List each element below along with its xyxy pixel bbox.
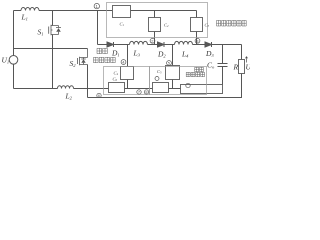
wire top rail inside unit1 [131, 10, 197, 12]
svg-text:D3: D3 [205, 49, 214, 58]
svg-text:S1: S1 [38, 28, 44, 37]
inductor L1 [21, 8, 39, 11]
label unit3 line2 电容单元 [186, 72, 204, 76]
inductor L3 [130, 41, 148, 44]
wire bottom rail [14, 88, 109, 90]
wire capacitor f vertical [172, 45, 174, 89]
voltage source U1 [9, 56, 18, 65]
capacitor c [191, 18, 203, 32]
svg-text:S2: S2 [70, 59, 77, 68]
wire left rail [13, 11, 15, 56]
node 4 [121, 60, 126, 65]
node 3 [195, 38, 200, 43]
wire S2 source to output return [87, 65, 89, 98]
node 9 [155, 77, 159, 81]
capacitor wide bottom right [181, 85, 223, 94]
wire middle rail [98, 44, 242, 46]
capacitor h [153, 83, 169, 93]
svg-text:C2: C2 [164, 23, 169, 29]
node 6 [97, 93, 101, 97]
svg-text:L2: L2 [65, 92, 73, 101]
svg-text:D1: D1 [111, 49, 120, 58]
node 2 [150, 38, 155, 43]
svg-text:C1: C1 [120, 22, 125, 28]
wire capacitor b vertical [154, 11, 156, 45]
capacitor a [113, 6, 131, 18]
svg-text:U1: U1 [2, 56, 10, 65]
node 1 [94, 3, 99, 8]
inductor L2 [58, 86, 74, 89]
svg-text:L3: L3 [133, 49, 141, 58]
wire below source [13, 64, 15, 88]
transistor S2 body diode [81, 59, 85, 63]
node 10 [186, 83, 190, 87]
transistor S1 body diode [56, 28, 61, 32]
svg-text:C3: C3 [205, 23, 210, 29]
wire capacitor c vertical [196, 11, 198, 45]
wire input mid rail [14, 48, 88, 50]
wire capacitor C0 branch [222, 45, 224, 85]
label unit3 line1 第三 [195, 67, 204, 71]
wire S1 source to bottom rail [52, 35, 54, 89]
label unit2 line2 电容单元 [94, 57, 116, 62]
svg-text:D2: D2 [157, 50, 166, 59]
wire capacitor d vertical [127, 45, 129, 89]
wire top rail [14, 10, 113, 12]
wire output return [88, 74, 242, 98]
transistor S1 [49, 25, 61, 35]
unit3 dashed box [150, 67, 207, 95]
svg-text:L1: L1 [21, 13, 28, 22]
label unit2 line1 第二 [97, 48, 107, 53]
svg-text:8: 8 [145, 91, 147, 95]
node 8 [144, 90, 148, 94]
capacitor d [121, 67, 134, 80]
diode D1 [107, 42, 114, 47]
transistor S2 [78, 49, 88, 66]
wire bottom rail right of capacitor g [125, 88, 181, 90]
node 7 [137, 90, 141, 94]
svg-text:Co: Co [207, 61, 215, 70]
arrow U0 [246, 57, 248, 63]
wire S1 branch [52, 11, 54, 26]
svg-text:C6: C6 [113, 77, 118, 83]
svg-text:C4: C4 [114, 71, 119, 77]
svg-text:C5: C5 [157, 69, 162, 75]
svg-text:L4: L4 [181, 50, 189, 59]
label unit1 第一电容单元 [217, 20, 247, 26]
capacitor f [166, 66, 180, 80]
wire switch node 1 vertical [97, 11, 99, 45]
wire load branch [241, 45, 243, 60]
capacitor C0 [218, 64, 228, 67]
svg-text:Uo: Uo [246, 63, 251, 72]
resistor R load [239, 60, 245, 74]
unit2 dashed box [104, 67, 150, 95]
svg-text:1: 1 [96, 4, 99, 9]
diode D2 [158, 42, 165, 47]
unit1 dashed box [107, 3, 208, 38]
capacitor b [149, 18, 161, 32]
node 5 [167, 61, 172, 66]
svg-text:6: 6 [98, 94, 100, 98]
capacitor g [109, 83, 125, 93]
inductor L4 [175, 41, 193, 44]
diode D3 [205, 42, 212, 47]
svg-text:7: 7 [138, 91, 140, 95]
svg-text:R: R [233, 63, 239, 72]
